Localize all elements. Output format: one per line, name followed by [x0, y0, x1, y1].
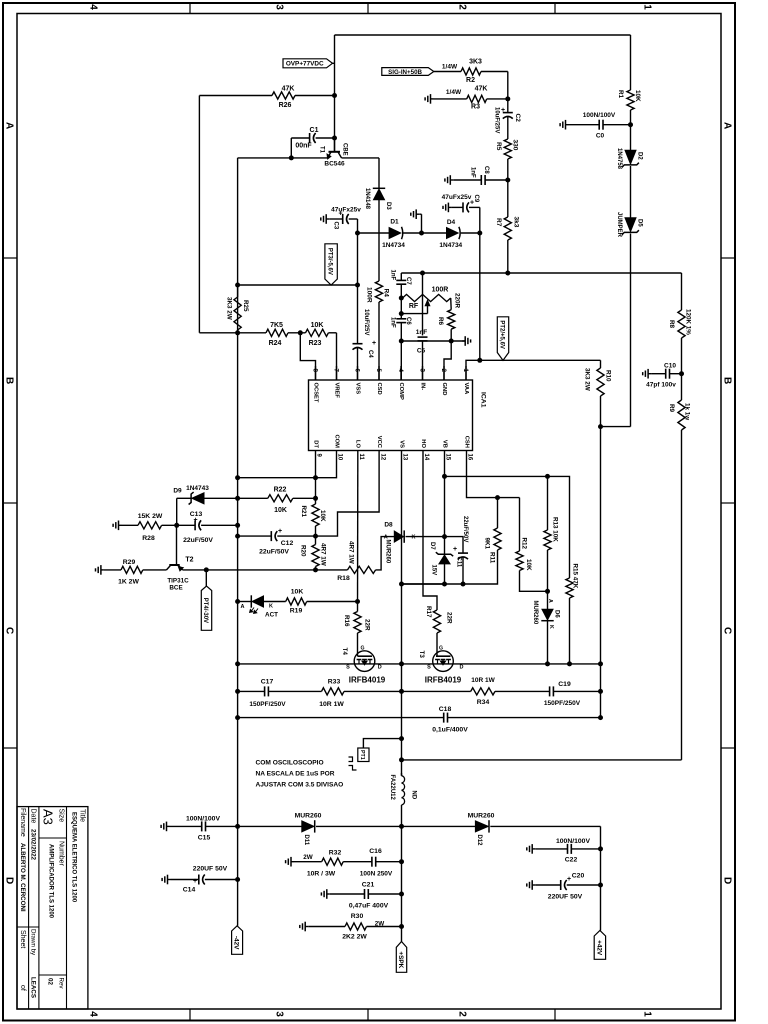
svg-text:R2: R2	[466, 77, 475, 84]
capacitor C4	[353, 285, 377, 380]
svg-text:IRFB4019: IRFB4019	[349, 676, 386, 685]
svg-text:C5: C5	[417, 348, 426, 355]
svg-text:C19: C19	[558, 681, 571, 688]
node VS-926	[399, 924, 404, 929]
svg-text:23/02/2022: 23/02/2022	[30, 829, 37, 861]
svg-text:C1: C1	[310, 127, 319, 134]
wire R11 col	[497, 498, 499, 528]
capacitor C15	[170, 816, 238, 842]
svg-text:R25: R25	[242, 300, 249, 312]
svg-text:R23: R23	[309, 340, 322, 347]
svg-text:PT1: PT1	[359, 750, 365, 760]
svg-text:LO: LO	[355, 440, 361, 449]
svg-text:4: 4	[87, 4, 98, 10]
node C6 bottom	[399, 339, 404, 344]
ground C3	[321, 214, 329, 224]
node C22 right	[598, 846, 603, 851]
svg-text:R11: R11	[489, 552, 496, 564]
svg-text:Date: Date	[30, 809, 37, 824]
svg-text:D6: D6	[554, 610, 560, 618]
svg-text:R1: R1	[617, 90, 624, 99]
svg-text:Filename: Filename	[19, 808, 26, 837]
svg-text:LEACS: LEACS	[30, 977, 37, 998]
wire VAA column	[479, 233, 481, 360]
wire R4 to pin5	[378, 302, 380, 380]
node rail-left	[235, 283, 240, 288]
node rail right	[598, 661, 603, 666]
wire row691 e	[554, 690, 601, 692]
svg-text:R18: R18	[337, 575, 350, 582]
node rail VS	[399, 661, 404, 666]
svg-text:MUR260: MUR260	[295, 813, 322, 820]
svg-text:SIG-IN+50B: SIG-IN+50B	[388, 69, 422, 76]
node C11 bottom	[461, 582, 466, 587]
wire R8-C10	[681, 338, 683, 374]
svg-text:Size: Size	[58, 809, 65, 823]
svg-text:D8: D8	[384, 522, 393, 529]
wire C11 link	[445, 537, 464, 554]
svg-text:22uF/50V: 22uF/50V	[462, 516, 468, 542]
flag SIG-IN+50B	[382, 68, 434, 76]
capacitor C1	[291, 127, 334, 150]
capacitor C18	[432, 706, 468, 734]
svg-text:R34: R34	[477, 699, 490, 706]
svg-text:220UF 50V: 220UF 50V	[548, 894, 583, 901]
wire D6 down	[547, 621, 549, 664]
wire PT4 drop	[205, 570, 207, 587]
node C1-col	[332, 136, 337, 141]
wire VB-VS row	[402, 583, 445, 585]
svg-text:1N4734: 1N4734	[382, 242, 405, 249]
wire D3 to R4	[378, 200, 380, 282]
svg-text:C3: C3	[333, 222, 339, 230]
wire R23 to pin7	[328, 333, 336, 380]
node R22-pin9	[313, 496, 318, 501]
resistor R19	[286, 589, 307, 615]
svg-text:D11: D11	[303, 835, 309, 846]
svg-text:R10: R10	[605, 370, 612, 382]
wire R21-R20	[315, 526, 317, 545]
wire row691 a	[238, 690, 265, 692]
svg-text:1nF: 1nF	[390, 317, 396, 328]
svg-text:DT: DT	[312, 440, 318, 448]
resistor R16	[343, 612, 371, 634]
wire top rail	[335, 34, 631, 36]
svg-text:4R7 1W: 4R7 1W	[348, 541, 355, 564]
diode D2 1N4758	[616, 148, 643, 170]
PT1 waveform	[349, 757, 357, 770]
svg-text:D12: D12	[476, 835, 482, 847]
ground C5 row	[462, 336, 470, 346]
wire R16-gate	[357, 633, 359, 651]
wire R19 right	[307, 601, 358, 603]
svg-text:10K: 10K	[525, 559, 532, 571]
resistor R2	[461, 59, 482, 85]
svg-text:+: +	[372, 340, 376, 347]
svg-text:100N/100V: 100N/100V	[186, 816, 220, 823]
flag PT3/-5,6V	[325, 244, 337, 285]
svg-text:0,1uF/400V: 0,1uF/400V	[432, 727, 468, 734]
svg-text:R20: R20	[300, 545, 307, 557]
diode D1 1N4734	[382, 219, 405, 250]
svg-text:3: 3	[273, 1011, 284, 1017]
node ACT left	[235, 599, 240, 604]
node C8	[505, 178, 510, 183]
svg-text:C20: C20	[572, 873, 585, 880]
node C14 right	[235, 877, 240, 882]
capacitor C8	[453, 166, 508, 185]
node R3-C2	[505, 96, 510, 101]
svg-text:ALBERTO M. CERCONI: ALBERTO M. CERCONI	[19, 843, 26, 912]
diode D3 1N4148	[364, 188, 391, 210]
resistor R20	[300, 543, 327, 567]
wire rail826 c	[490, 826, 600, 930]
wire D1-D4	[404, 232, 447, 234]
svg-text:R19: R19	[290, 608, 303, 615]
svg-text:3k3: 3k3	[513, 217, 520, 228]
svg-text:10R / 3W: 10R / 3W	[307, 871, 336, 878]
node VB junction	[442, 534, 447, 539]
wire pin13 col	[401, 465, 403, 942]
node D4-C9	[477, 231, 482, 236]
node row717 right	[598, 715, 603, 720]
wire D4 right	[461, 232, 480, 234]
LED ACT	[250, 595, 279, 618]
node Rf left	[399, 296, 404, 301]
svg-text:A: A	[721, 122, 732, 129]
svg-text:120K 1%: 120K 1%	[685, 309, 692, 335]
svg-text:K: K	[548, 625, 554, 629]
resistor R9	[668, 374, 691, 430]
resistor R8	[668, 309, 692, 338]
ground C22	[527, 844, 535, 854]
svg-text:R32: R32	[329, 850, 342, 857]
svg-text:16: 16	[467, 454, 473, 461]
svg-text:+: +	[193, 878, 197, 885]
wire PT3 rail	[238, 284, 358, 286]
wire RF wiper	[401, 313, 427, 315]
svg-text:10R 1W: 10R 1W	[471, 677, 495, 684]
node PT4	[204, 567, 209, 572]
wire R12 col	[519, 498, 521, 551]
wire R29 left	[104, 569, 121, 571]
wire rail826 a	[238, 825, 302, 827]
wire pin3 col	[422, 273, 424, 335]
node C1-emitter	[289, 155, 294, 160]
svg-text:R30: R30	[351, 913, 364, 920]
node VS-738	[399, 736, 404, 741]
node row717 left	[235, 715, 240, 720]
svg-text:ESQUEMA ELETRICO TLS 1200: ESQUEMA ELETRICO TLS 1200	[71, 812, 77, 903]
svg-text:ACT: ACT	[265, 612, 278, 619]
svg-text:C10: C10	[664, 363, 676, 370]
svg-text:2: 2	[456, 1011, 467, 1017]
svg-text:+: +	[453, 546, 457, 553]
wire pin14 col	[423, 465, 437, 611]
svg-text:220R: 220R	[454, 293, 461, 309]
svg-text:JUMPER: JUMPER	[616, 212, 622, 238]
svg-text:22uF/50V: 22uF/50V	[183, 537, 213, 544]
svg-text:1: 1	[641, 1011, 652, 1017]
wire gnd row	[401, 340, 465, 342]
svg-text:1nF: 1nF	[470, 167, 476, 178]
node R12-D6	[545, 589, 550, 594]
node VS-861	[399, 859, 404, 864]
svg-text:IRFB4019: IRFB4019	[425, 676, 462, 685]
wire R3 left	[434, 89, 467, 99]
wire ACT-R19	[263, 601, 285, 603]
node VS-826	[399, 824, 404, 829]
capacitor C2	[494, 99, 522, 139]
svg-text:C21: C21	[362, 882, 375, 889]
svg-text:1nF: 1nF	[390, 270, 396, 281]
svg-text:R28: R28	[142, 535, 155, 542]
ground C21	[321, 889, 329, 899]
svg-text:02: 02	[47, 978, 54, 985]
svg-text:S: S	[427, 665, 431, 671]
svg-text:PT2/+5,6V: PT2/+5,6V	[499, 320, 505, 349]
node rail R13	[545, 661, 550, 666]
wire net273	[401, 272, 681, 274]
capacitor C14	[171, 866, 238, 894]
wire pin2 gnd link	[444, 341, 451, 380]
svg-text:C13: C13	[190, 511, 203, 518]
svg-text:100R: 100R	[432, 287, 449, 294]
svg-text:100N/100V: 100N/100V	[583, 112, 616, 119]
svg-text:2: 2	[456, 4, 467, 10]
svg-text:220UF 50V: 220UF 50V	[193, 866, 228, 873]
svg-text:NA ESCALA DE 1uS POR: NA ESCALA DE 1uS POR	[256, 771, 335, 778]
wire C3 corner	[357, 219, 359, 233]
capacitor C16	[360, 848, 393, 878]
wire R5 to C8	[507, 159, 509, 217]
wire R24 row	[199, 332, 266, 334]
svg-text:6: 6	[354, 369, 361, 373]
svg-text:COMP: COMP	[398, 383, 404, 401]
node row691 left	[235, 689, 240, 694]
ground R29	[96, 565, 104, 575]
node R20 bottom	[313, 567, 318, 572]
resistor R34	[471, 677, 496, 706]
svg-text:VREF: VREF	[333, 383, 339, 399]
capacitor C10	[646, 363, 681, 389]
wire D1 left	[358, 232, 390, 234]
resistor R30	[342, 913, 384, 941]
wire R20 end	[315, 567, 317, 570]
svg-text:GND: GND	[441, 383, 447, 396]
node col-477	[235, 475, 240, 480]
ground R30	[300, 922, 308, 932]
capacitor C9	[442, 194, 480, 212]
svg-text:RF: RF	[409, 303, 419, 310]
svg-text:BC546: BC546	[324, 161, 345, 168]
wire VCC link	[314, 465, 379, 537]
wire left col x199	[198, 96, 200, 333]
resistor R22	[268, 487, 293, 515]
svg-text:G: G	[360, 646, 364, 652]
node row691 VS	[399, 689, 404, 694]
osc text	[256, 760, 344, 789]
flag -42V	[232, 926, 243, 955]
svg-text:VAA: VAA	[463, 383, 469, 396]
node R11 top	[495, 495, 500, 500]
svg-text:FA22U12: FA22U12	[389, 775, 395, 801]
capacitor C5	[416, 329, 428, 380]
node R13 top	[545, 474, 550, 479]
diode D11 MUR260	[295, 813, 322, 846]
svg-text:4: 4	[397, 369, 404, 373]
mosfet T4 IRFB4019	[341, 646, 386, 685]
svg-text:1K 2W: 1K 2W	[118, 579, 139, 586]
svg-text:15K 2W: 15K 2W	[138, 513, 163, 520]
wire R1 down	[630, 110, 632, 125]
svg-text:10uF/25V: 10uF/25V	[494, 107, 500, 133]
node R21 bottom	[313, 534, 318, 539]
resistor R7	[495, 217, 520, 241]
diode D9 1N4743	[173, 485, 237, 525]
svg-text:R4: R4	[383, 289, 390, 298]
svg-text:100N/100V: 100N/100V	[556, 838, 590, 845]
svg-text:Title: Title	[79, 809, 86, 822]
probe PT1	[358, 748, 369, 762]
svg-text:D2: D2	[637, 152, 643, 160]
wire D5 down	[630, 234, 632, 427]
svg-text:PT3/-5,6V: PT3/-5,6V	[327, 248, 333, 275]
title block frame	[17, 807, 88, 1009]
svg-text:22R: 22R	[364, 619, 371, 631]
svg-text:1/4W: 1/4W	[446, 89, 462, 96]
diode D5 JUMPER	[616, 212, 643, 238]
wire pin4 col top	[400, 273, 402, 280]
wire net273 corner	[681, 273, 683, 310]
svg-text:R26: R26	[279, 102, 292, 109]
capacitor C13	[183, 511, 238, 544]
wire jog 630-600	[601, 426, 631, 428]
wire R32 left	[294, 854, 322, 862]
svg-text:ICA1: ICA1	[480, 392, 487, 408]
svg-text:9K1: 9K1	[484, 538, 491, 550]
svg-text:330: 330	[512, 140, 519, 151]
svg-text:C7: C7	[405, 277, 411, 285]
svg-text:D3: D3	[385, 202, 391, 210]
svg-text:11: 11	[358, 454, 364, 461]
resistor R17	[425, 606, 453, 633]
ground D1D4	[411, 209, 422, 233]
IC ICA1 box and pins	[309, 366, 473, 465]
svg-text:C6: C6	[405, 317, 411, 325]
inductor L1 FA22U12	[389, 773, 417, 805]
svg-text:150PF/250V: 150PF/250V	[544, 700, 581, 707]
svg-text:R16: R16	[343, 615, 350, 627]
wire R7 down	[507, 240, 509, 273]
mosfet T3 IRFB4019	[418, 646, 464, 685]
flag +42V	[594, 931, 605, 960]
svg-text:R33: R33	[328, 679, 341, 686]
svg-text:K: K	[412, 535, 416, 541]
wire R22 right	[293, 497, 316, 499]
svg-text:C22: C22	[565, 857, 578, 864]
svg-text:10K: 10K	[274, 507, 287, 514]
svg-text:T1: T1	[319, 146, 325, 154]
wire R24-R23	[288, 332, 306, 334]
svg-text:10K: 10K	[291, 589, 304, 596]
node VB-476	[442, 474, 447, 479]
resistor R29	[118, 559, 143, 586]
capacitor C12	[238, 528, 316, 556]
flag PT4/-30V	[201, 586, 211, 630]
svg-text:Sheet: Sheet	[19, 930, 26, 948]
svg-text:22R: 22R	[446, 612, 453, 624]
wire C16 right	[376, 861, 402, 863]
trimmer RF 100R	[403, 287, 451, 314]
svg-text:OCSET: OCSET	[312, 383, 318, 403]
wire col657 to PT3rail	[357, 233, 359, 285]
svg-text:47K: 47K	[282, 85, 295, 92]
node C13 right	[235, 523, 240, 528]
wire row717 a	[238, 717, 444, 719]
node R7 bottom	[505, 271, 510, 276]
transistor T1 BC546	[319, 138, 348, 168]
wire R22 left	[238, 497, 268, 499]
svg-text:OVP+77VDC: OVP+77VDC	[286, 61, 324, 68]
svg-text:A: A	[241, 604, 245, 610]
resistor R21	[300, 504, 326, 526]
wire R11 down	[402, 550, 498, 584]
svg-text:PT4/-30V: PT4/-30V	[202, 598, 208, 623]
svg-text:8: 8	[312, 369, 319, 373]
resistor R24	[266, 322, 288, 347]
svg-text:AJUSTAR COM 3.5 DIVISAO: AJUSTAR COM 3.5 DIVISAO	[256, 782, 344, 789]
svg-text:T4: T4	[341, 648, 348, 656]
svg-text:C2: C2	[514, 114, 521, 123]
svg-text:R7: R7	[495, 218, 502, 227]
svg-text:R24: R24	[269, 340, 282, 347]
node VS-584	[399, 582, 404, 587]
node T2col-row	[174, 523, 179, 528]
svg-text:VB: VB	[441, 440, 447, 448]
svg-text:10uF/25V: 10uF/25V	[363, 309, 369, 335]
svg-text:47K: 47K	[475, 86, 488, 93]
wire row691 d	[495, 690, 550, 692]
ground R28	[113, 521, 121, 531]
svg-text:VSS: VSS	[354, 383, 360, 395]
svg-text:T3: T3	[418, 651, 425, 659]
node R26-col	[332, 93, 337, 98]
diode D4 1N4734	[439, 219, 462, 249]
capacitor C3	[329, 207, 361, 230]
capacitor C20	[535, 873, 600, 901]
svg-text:TIP31C: TIP31C	[167, 578, 189, 585]
diode D7 15V	[429, 542, 453, 575]
wire R2 right	[481, 72, 508, 99]
svg-text:COM: COM	[333, 434, 339, 448]
title block text	[19, 808, 86, 998]
svg-text:47uFx25v: 47uFx25v	[331, 207, 361, 214]
svg-text:C11: C11	[455, 557, 461, 568]
svg-text:15V: 15V	[431, 565, 437, 576]
svg-text:IN-: IN-	[419, 383, 425, 391]
ground C9	[443, 203, 451, 213]
svg-text:G: G	[439, 646, 443, 652]
resistor R10	[584, 360, 612, 426]
svg-text:14: 14	[423, 454, 429, 461]
svg-text:CSD: CSD	[376, 383, 382, 395]
svg-text:2W: 2W	[303, 854, 313, 861]
svg-text:Rev: Rev	[58, 978, 65, 990]
svg-text:C: C	[3, 627, 14, 634]
svg-text:R12: R12	[521, 538, 528, 550]
svg-text:4R7 1W: 4R7 1W	[320, 543, 327, 566]
